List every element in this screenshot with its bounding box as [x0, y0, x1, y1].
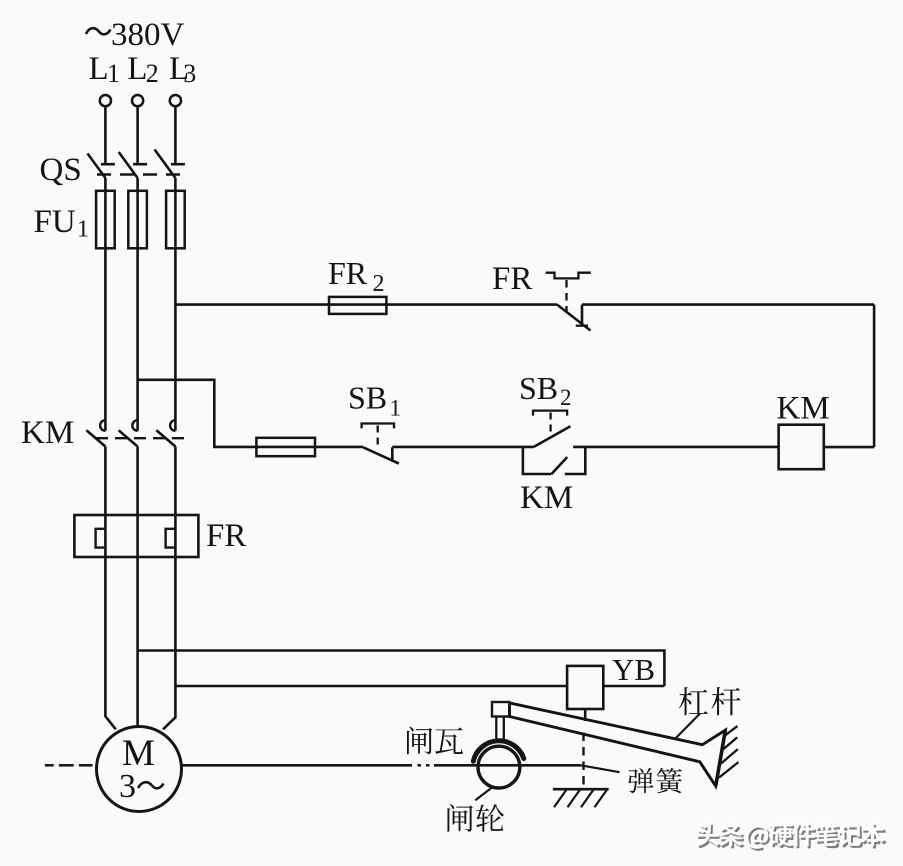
switch QS pole 2 — [119, 152, 147, 178]
wire L3 KM to motor — [163, 447, 175, 730]
label 杠杆 — [679, 687, 741, 715]
svg-text:QS: QS — [40, 152, 82, 188]
wire right rail — [873, 305, 876, 448]
contactor KM main pole 2 — [119, 420, 138, 446]
wire L3 fuse to KM contact — [174, 248, 177, 430]
brake shoe arm — [496, 717, 504, 743]
SB2 dashed link — [549, 413, 551, 437]
label KM aux — [520, 480, 573, 516]
label YB — [612, 652, 655, 687]
watermark 头条@硬件笔记本 — [696, 823, 887, 851]
KM linkage dashed bar — [96, 437, 186, 439]
svg-text:FU: FU — [34, 204, 76, 240]
node L3 label — [169, 51, 196, 88]
label 闸轮 leader — [475, 787, 492, 800]
pushbutton SB1 actuator — [362, 424, 394, 429]
terminal L3 — [170, 95, 181, 106]
svg-text:2: 2 — [146, 59, 159, 88]
switch QS pole 1 — [88, 154, 115, 179]
fuse FU1 pole 1 — [96, 191, 115, 249]
terminal L1 — [100, 95, 111, 106]
wire L1 lead — [104, 106, 107, 164]
svg-text:KM: KM — [777, 391, 830, 427]
SB1 fixed pin — [391, 447, 394, 461]
label M 3~ — [119, 733, 164, 805]
fuse FU1 pole 3 — [166, 191, 185, 249]
label SB2 — [519, 370, 572, 410]
SB1 dashed link — [377, 426, 379, 447]
ground anchor — [553, 788, 609, 791]
QS linkage dashed bar — [97, 173, 186, 175]
svg-text:1: 1 — [77, 217, 89, 243]
YB armature stub — [584, 709, 587, 721]
label FR thermal — [206, 518, 246, 554]
contactor KM main pole 1 — [86, 420, 105, 446]
pivot hatching — [719, 726, 738, 778]
svg-text:YB: YB — [612, 652, 655, 687]
svg-text:KM: KM — [520, 480, 573, 516]
contactor KM main pole 3 — [156, 420, 175, 446]
svg-text:KM: KM — [21, 415, 74, 451]
brake coil YB — [567, 666, 603, 709]
svg-text:1: 1 — [390, 396, 402, 421]
pushbutton SB2 actuator — [533, 411, 567, 416]
svg-text:SB: SB — [348, 380, 387, 416]
svg-text:3: 3 — [119, 768, 136, 805]
wire L2 fuse to KM contact — [136, 248, 139, 430]
wire SB2 to KM coil — [573, 446, 779, 449]
SB1 blade — [363, 447, 399, 463]
svg-text:1: 1 — [107, 59, 120, 88]
coil KM — [779, 425, 824, 470]
shaft line motor to wheel — [182, 764, 413, 767]
spring dashed line — [582, 733, 584, 790]
wire SB1 to SB2 — [392, 446, 534, 449]
FR contact blade — [557, 305, 590, 331]
shaft line wheel to spring — [434, 764, 581, 767]
label FU1 — [34, 204, 90, 243]
brake shoe 闸瓦 — [473, 741, 524, 761]
label FR contact — [492, 261, 532, 297]
fuse FR2 — [329, 297, 386, 314]
label KM left — [21, 415, 74, 451]
thermal contact FR actuator — [546, 273, 591, 279]
wire L2 lead — [136, 106, 139, 164]
wire control branch from L2 — [138, 380, 364, 447]
svg-text:FR: FR — [206, 518, 246, 554]
FR contact fixed pin — [581, 305, 584, 326]
wire YB bottom branch right — [603, 685, 664, 688]
wire L1 KM to motor — [105, 447, 115, 730]
wire L3 lead — [174, 106, 177, 164]
label KM coil — [777, 391, 830, 427]
label 弹簧 — [628, 768, 682, 793]
label SB1 — [348, 380, 401, 421]
label 杠杆 leader — [675, 714, 700, 739]
wire L2 QS to fuse — [136, 178, 139, 191]
lever bar 杠杆 — [510, 703, 726, 786]
SB2 blade — [534, 426, 571, 447]
fuse FU2 — [256, 438, 315, 456]
label 闸轮 — [447, 804, 504, 832]
wire top control line right — [582, 303, 874, 306]
svg-text:2: 2 — [560, 385, 572, 410]
svg-text:L: L — [127, 51, 147, 87]
svg-text:2: 2 — [373, 271, 385, 297]
wire L3 QS to fuse — [174, 178, 177, 191]
fuse FU1 pole 2 — [128, 191, 147, 249]
svg-text:FR: FR — [492, 261, 532, 297]
terminal L2 — [132, 95, 143, 106]
svg-text:3: 3 — [183, 59, 196, 88]
ground hatching — [554, 790, 607, 808]
lever pivot square — [492, 702, 510, 717]
label ~380V supply — [86, 17, 185, 53]
wire L1 QS to fuse — [104, 178, 107, 191]
shaft dash-dot — [418, 764, 430, 767]
wire YB top branch — [138, 651, 665, 687]
wire YB bottom branch left — [175, 685, 567, 688]
svg-text:FR: FR — [328, 255, 368, 291]
thermal relay FR box — [74, 515, 198, 557]
node L2 label — [127, 51, 159, 88]
label FR2 — [328, 255, 385, 297]
shaft dashed line left — [45, 764, 93, 767]
brake wheel 闸轮 — [478, 746, 520, 788]
FR heater element pole 3 — [166, 529, 176, 548]
wire L2 KM to motor — [136, 447, 139, 727]
wire L1 fuse to KM contact — [104, 248, 107, 430]
wire top control line left — [175, 303, 557, 306]
KM auxiliary contact branch — [523, 447, 585, 474]
node L1 label — [89, 51, 121, 88]
FR contact dashed link — [565, 280, 567, 313]
FR heater element pole 1 — [96, 529, 106, 548]
label 闸瓦 — [407, 727, 463, 755]
wire KM coil to right rail — [824, 446, 874, 449]
motor M circle — [97, 727, 182, 812]
svg-text:L: L — [89, 51, 109, 87]
spring leader — [581, 765, 620, 772]
label QS — [40, 152, 82, 188]
svg-text:380V: 380V — [111, 17, 185, 53]
switch QS pole 3 — [155, 150, 185, 179]
svg-text:SB: SB — [519, 370, 558, 406]
